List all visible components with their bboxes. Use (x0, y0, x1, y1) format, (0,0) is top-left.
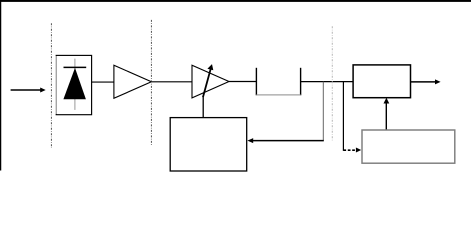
boundary dash-dot line A (50, 23, 52, 148)
AGC feedback arrowhead (247, 138, 253, 143)
node J2 clock drop (342, 82, 344, 151)
photodiode box (56, 55, 91, 114)
wire filter to decision box (301, 81, 354, 83)
clock recovery up arrow (384, 98, 390, 131)
filter element left plate (255, 68, 257, 96)
filter element bottom (256, 94, 300, 96)
VGA control wire (202, 97, 204, 117)
output arrow (411, 79, 441, 84)
frame top border (0, 0, 471, 2)
filter element right plate (300, 68, 302, 96)
AGC box (170, 118, 247, 171)
photodiode box left edge (faint) (55, 56, 57, 114)
dashed clock arrowhead (356, 148, 361, 153)
photodiode cathode bar (64, 66, 87, 68)
amplifier A1 (114, 65, 151, 98)
wire photodiode to amp (92, 81, 114, 83)
wire VGA to filter (229, 81, 256, 83)
AGC feedback wire (253, 140, 324, 142)
frame left border (0, 0, 1, 171)
photodiode D1 triangle (63, 68, 86, 99)
decision circuit box (353, 65, 410, 98)
wire amp to VGA (151, 81, 192, 83)
variable-gain amplifier A2 (192, 65, 229, 98)
boundary dash-dot line B (150, 20, 152, 146)
node J1 feedback drop (322, 82, 324, 141)
dashed clock wire (343, 149, 356, 151)
clock recovery box (362, 130, 455, 163)
photodiode vertical lead (74, 59, 76, 110)
VGA gain arrow (203, 64, 213, 97)
boundary dash-dot line C (331, 26, 333, 141)
input arrow (11, 88, 46, 93)
